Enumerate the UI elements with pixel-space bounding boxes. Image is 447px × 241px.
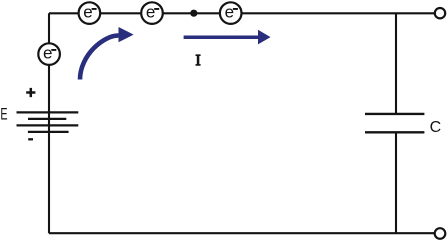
electron e- on left vertical wire (38, 43, 60, 65)
svg-text:e: e (146, 2, 155, 21)
electron e- 3 on top wire (220, 2, 242, 24)
current label I (196, 54, 201, 65)
svg-text:E: E (0, 104, 7, 123)
electron e- 1 on top wire (79, 2, 101, 24)
wire top horizontal (49, 12, 434, 14)
battery label E (0, 104, 7, 123)
battery E plate 1 long (17, 111, 79, 113)
wire bottom horizontal (49, 232, 434, 234)
electron e- 2 on top wire (141, 2, 163, 24)
battery E plate 2 short (28, 118, 66, 120)
terminal bottom right (435, 228, 446, 239)
capacitor C bottom plate (365, 131, 424, 133)
wire capacitor branch lower (395, 132, 397, 233)
svg-text:e: e (43, 43, 52, 62)
svg-text:e: e (83, 2, 92, 21)
svg-text:e: e (225, 2, 234, 21)
wire left vertical (48, 13, 50, 233)
battery minus sign (28, 138, 33, 140)
battery E plate 4 short (28, 131, 69, 133)
junction node dot (190, 10, 197, 17)
svg-text:C: C (430, 119, 442, 136)
capacitor label C (430, 119, 442, 136)
terminal top right (435, 8, 445, 18)
wire capacitor branch upper (395, 13, 397, 114)
straight blue arrow (current direction) (184, 30, 271, 45)
capacitor C top plate (365, 113, 424, 115)
battery E plate 3 long (17, 124, 79, 126)
curved blue arrow (electron flow) (80, 27, 134, 80)
battery plus sign (26, 88, 35, 97)
